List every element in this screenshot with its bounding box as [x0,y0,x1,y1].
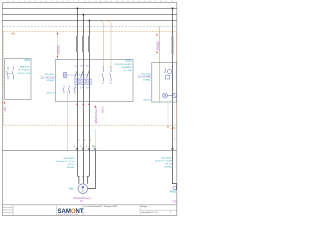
svg-text:-WD01: -WD01 [57,45,61,55]
function text right (magenta) [172,201,178,203]
bus L1 [2,7,176,9]
terminal circles on strip [76,148,96,150]
svg-text:+M1: +M1 [11,32,17,36]
cable marker -WD01 (vertical magenta) [57,33,61,58]
svg-text:400VAC: 400VAC [47,79,55,82]
svg-text:Druckerhöhung 1: Druckerhöhung 1 [73,197,91,200]
node L1 tap junction [76,7,78,9]
fuse F2 thick bar [82,36,84,52]
svg-text:-WD02: -WD02 [156,41,160,51]
wire right to off-page [173,151,177,190]
svg-text:3RV2021-4DA15: 3RV2021-4DA15 [115,63,132,66]
svg-text:Datenblatt 03.1 TV: Datenblatt 03.1 TV [141,211,158,214]
terminal circle XM02 [173,186,177,190]
left box device text (cyan) [18,59,31,75]
svg-text:Anlage: Anlage [141,205,148,208]
right device box -T01 [152,63,177,103]
right box lower symbols [163,93,177,98]
motor pin ticks [78,175,89,177]
svg-text:+M1-WM01: +M1-WM01 [63,158,75,160]
svg-text:14: 14 [102,83,104,85]
terminal strip line -XD [2,150,176,152]
svg-text:PE 2,5: PE 2,5 [68,164,75,166]
svg-text:24VDC 2,5A: 24VDC 2,5A [18,72,31,75]
title text center [85,205,118,208]
terminal circle right [172,148,174,150]
left device box -S01 [5,58,31,99]
breaker Q01 pole contacts [63,71,89,78]
title block outer [2,204,176,206]
wire phase 2 x=83 [82,15,84,151]
enclosure box +M1 (orange dashed) [3,31,176,125]
fuse F4 thick bar [172,36,174,54]
wire N orange right group [159,26,161,101]
top grid reference numbers [7,1,174,3]
svg-text:-W1: -W1 [3,106,7,112]
svg-text:3x2,5mm² L1,L2,L3: 3x2,5mm² L1,L2,L3 [56,160,76,163]
svg-text:-SF01: -SF01 [23,59,30,62]
node L2 tap junction [82,14,84,16]
wire phase 1 x=77 [76,8,78,151]
fuse F3 thick bar [88,36,90,52]
right box breaker symbol [165,65,173,80]
svg-text:4/T2: 4/T2 [80,87,84,89]
svg-text:-QA01: -QA01 [125,59,133,62]
wire below right box to enclosure [167,102,169,125]
svg-text:+M1-WD02: +M1-WD02 [161,157,173,159]
svg-text:M: M [81,186,84,190]
aux contact pin text [102,67,112,85]
title text right [141,205,172,214]
svg-text:4x2,5: 4x2,5 [101,106,105,113]
cable marker -WM01 (vertical magenta) below box [94,105,98,124]
svg-text:2L1 4N 6PE: 2L1 4N 6PE [138,76,152,79]
svg-text:3x1,5mm² L,N,PE: 3x1,5mm² L,N,PE [155,159,173,162]
wire PE green into box [57,32,59,60]
cable label block XD02 right (cyan) [155,157,173,168]
bus L3 [2,20,176,22]
svg-text:-WM01/4x2,5: -WM01/4x2,5 [94,106,98,124]
svg-text:5/L3: 5/L3 [86,66,90,68]
svg-text:Druckerhöhung M1 / Pumpen 400V: Druckerhöhung M1 / Pumpen 400V [85,205,118,208]
fuse F1 thick bar [76,36,78,52]
middle device box -Q01 [56,59,134,101]
svg-text:INDUSTRIESERVICE·GMBH: INDUSTRIESERVICE·GMBH [58,214,79,216]
svg-text:TV03: TV03 [172,201,178,203]
wire PE green below enclosure [94,130,96,151]
top grid reference ticks [13,0,166,2]
svg-text:1/L1: 1/L1 [74,66,78,68]
control wire to aux contact 2 [110,23,112,70]
red pin labels above terminals [78,139,92,141]
function text under motor (magenta) [73,197,91,203]
bus N (dashed) [2,25,176,27]
aux contact block left [63,86,75,94]
breaker pin labels bottom [74,87,90,89]
title block dividers [57,205,177,216]
motor feeder wires below strip [77,151,89,184]
svg-text:PE 1,5: PE 1,5 [165,163,172,165]
red terminal arrows below box [76,103,78,105]
cable label block XM01 (cyan) [56,158,76,169]
svg-text:2/T1: 2/T1 [74,87,78,89]
right box labels left (cyan) [138,73,152,101]
svg-text:2L1 4L2 6L3: 2L1 4L2 6L3 [41,76,56,79]
left box contact K1 [7,67,14,80]
svg-text:CP-E 24/2.5: CP-E 24/2.5 [18,70,31,72]
svg-text:6/T3: 6/T3 [86,87,90,89]
breaker operator handle [64,73,67,78]
labels between left and middle boxes (cyan) [41,74,56,94]
svg-text:400VAC: 400VAC [67,166,75,169]
cable marker right (vertical magenta) [156,34,160,54]
terminal labels black [74,146,95,148]
wire phase 3 x=89 [88,21,90,151]
red arrow below right box [167,126,169,128]
node L1 tap junction right group [172,7,174,9]
svg-text:230VAC: 230VAC [143,78,151,81]
svg-text:SIEMENS: SIEMENS [122,67,132,69]
node L3 tap junction [88,20,90,22]
svg-text:+M1: +M1 [171,126,177,130]
middle box device text (cyan) [115,59,132,71]
SAMONT logo [58,209,84,216]
svg-text:-XM02: -XM02 [169,191,177,194]
page border frame [2,2,176,215]
svg-text:ABB 230V: ABB 230V [20,65,31,68]
right group: wire L1 x=172.5 [172,8,174,151]
svg-text:3/L2: 3/L2 [80,66,84,68]
breaker pin labels top [74,66,90,68]
bus L2 [2,14,176,16]
wire PE to motor right side [88,151,96,189]
svg-text:23: 23 [109,67,111,69]
svg-text:-M01: -M01 [69,188,75,191]
breaker thermal trip boxes [75,79,91,84]
svg-text:24: 24 [109,83,111,85]
svg-text:13: 13 [102,67,104,69]
wire N light x=67 [66,90,68,151]
revision table left [2,205,13,216]
svg-text:230VAC: 230VAC [164,165,172,168]
svg-text:20...25A: 20...25A [123,69,132,72]
aux contacts right pair [102,69,111,82]
control wire to aux contact 1 [102,23,104,70]
motor M01 [78,184,88,194]
left edge cable marker magenta [3,102,7,112]
svg-text:-XD01 N: -XD01 N [46,92,55,94]
svg-text:-XD02 N: -XD02 N [143,99,152,101]
